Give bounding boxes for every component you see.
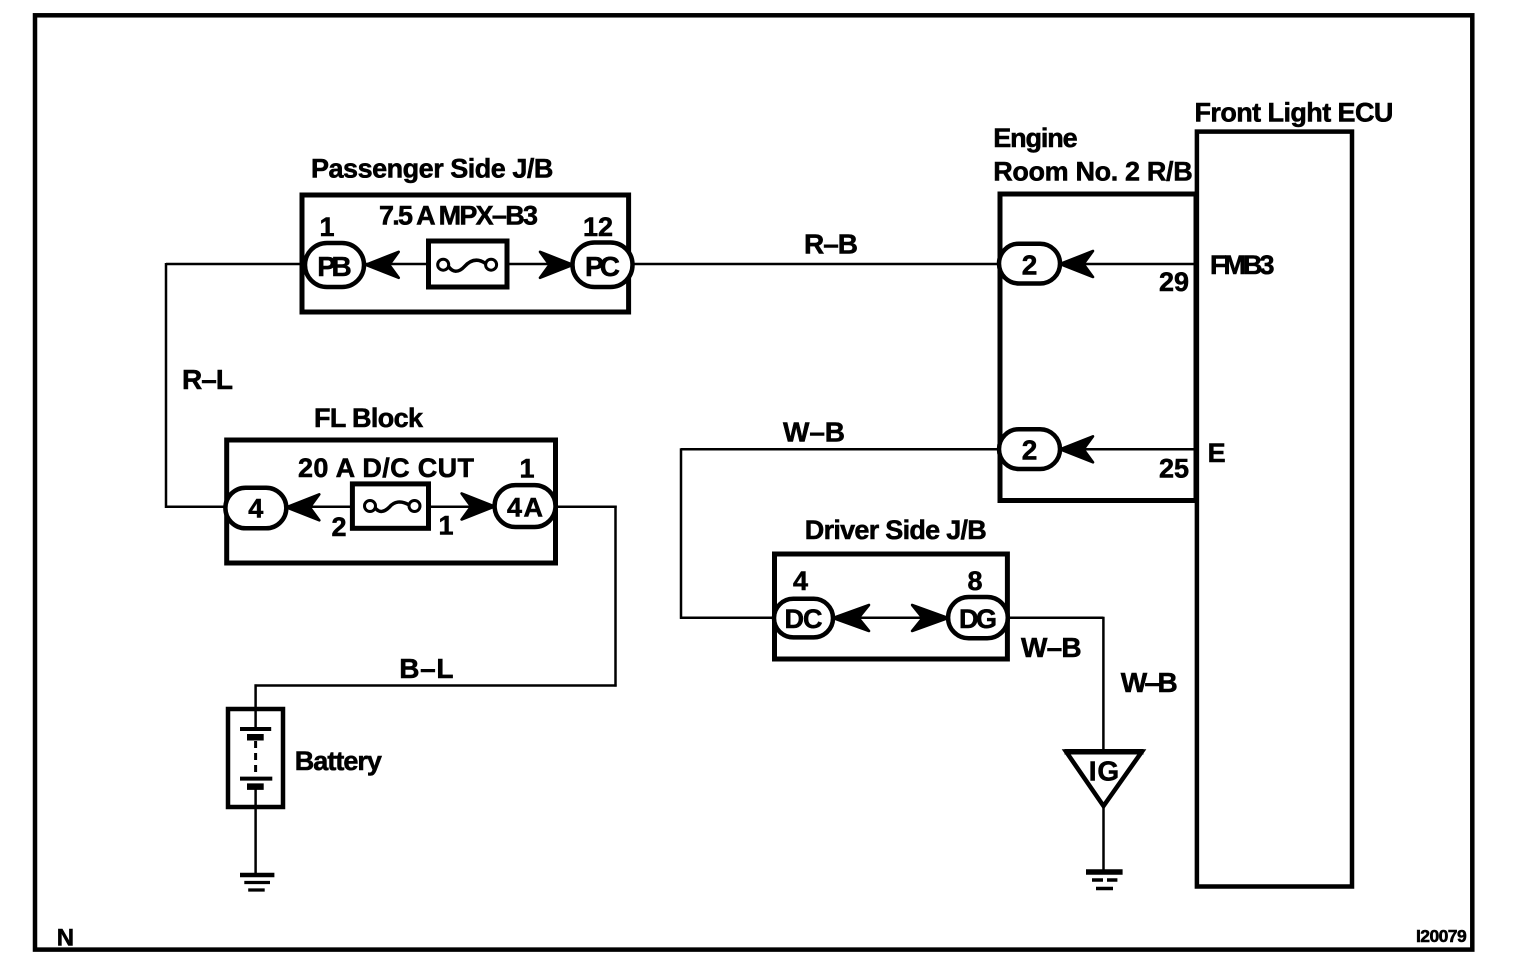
svg-text:Battery: Battery — [295, 746, 382, 776]
svg-text:I20079: I20079 — [1416, 926, 1467, 946]
svg-text:2: 2 — [1022, 435, 1038, 466]
svg-text:7.5 A MPX–B3: 7.5 A MPX–B3 — [379, 201, 538, 231]
svg-text:DC: DC — [785, 604, 823, 634]
svg-text:W–B: W–B — [783, 417, 845, 448]
svg-text:DG: DG — [959, 604, 997, 634]
svg-text:4: 4 — [248, 494, 263, 524]
svg-text:12: 12 — [583, 212, 613, 242]
svg-text:2: 2 — [331, 512, 346, 542]
svg-text:29: 29 — [1159, 267, 1189, 297]
svg-text:E: E — [1208, 438, 1226, 468]
svg-text:PB: PB — [317, 251, 352, 282]
svg-text:1: 1 — [519, 454, 534, 484]
svg-text:FL Block: FL Block — [314, 403, 424, 433]
svg-text:1: 1 — [319, 212, 334, 242]
svg-text:1: 1 — [438, 511, 453, 541]
svg-text:20 A D/C CUT: 20 A D/C CUT — [298, 453, 475, 483]
svg-text:Driver Side J/B: Driver Side J/B — [805, 515, 987, 545]
svg-text:PC: PC — [585, 251, 620, 282]
svg-text:Passenger Side J/B: Passenger Side J/B — [311, 154, 553, 184]
svg-text:R–B: R–B — [804, 229, 858, 260]
svg-text:Front Light ECU: Front Light ECU — [1195, 98, 1394, 128]
svg-text:2: 2 — [1022, 250, 1038, 281]
svg-text:8: 8 — [967, 566, 982, 596]
svg-text:Room No. 2 R/B: Room No. 2 R/B — [993, 157, 1192, 187]
svg-text:25: 25 — [1159, 454, 1189, 484]
svg-text:R–L: R–L — [182, 364, 233, 395]
svg-text:Engine: Engine — [993, 123, 1077, 153]
svg-text:IG: IG — [1089, 756, 1119, 787]
svg-text:4A: 4A — [507, 493, 543, 523]
svg-text:N: N — [57, 925, 74, 952]
svg-text:W–B: W–B — [1121, 667, 1178, 698]
svg-text:FMB3: FMB3 — [1210, 250, 1275, 280]
svg-text:W–B: W–B — [1021, 632, 1082, 663]
svg-text:4: 4 — [793, 566, 808, 596]
svg-text:B–L: B–L — [399, 653, 453, 684]
